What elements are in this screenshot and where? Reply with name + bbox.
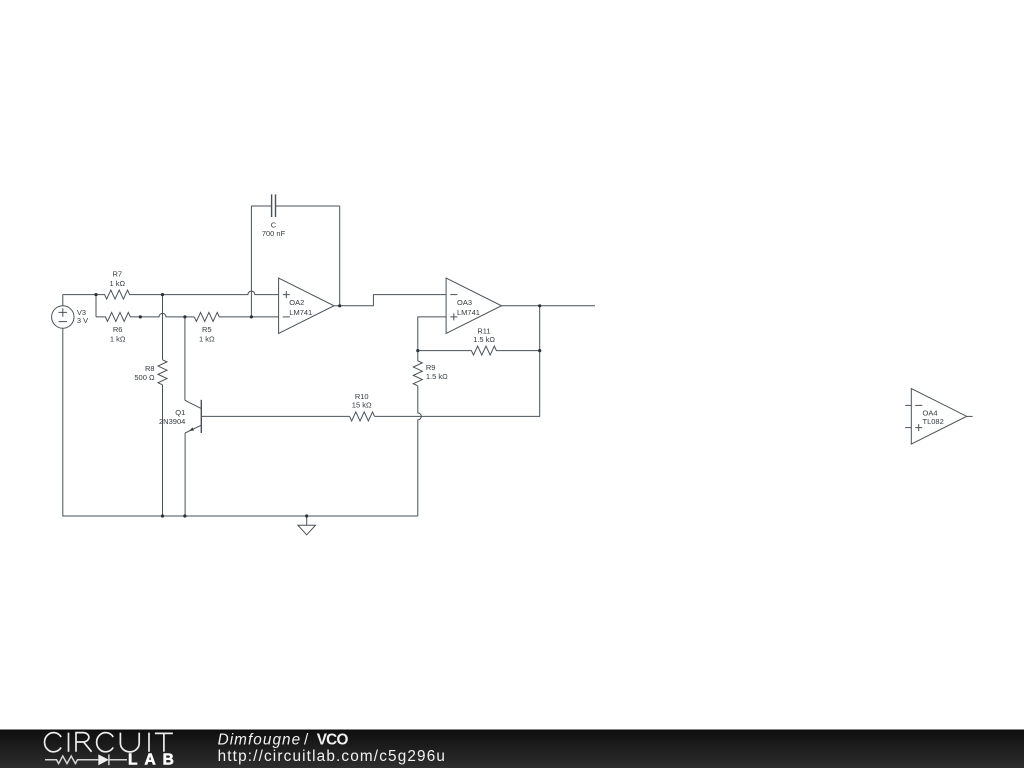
ground (298, 516, 316, 535)
svg-text:R9: R9 (426, 363, 436, 372)
op-amp OA2 (279, 278, 334, 334)
svg-text:http://circuitlab.com/c5g296u: http://circuitlab.com/c5g296u (218, 748, 445, 765)
CircuitLab logo resistor-diode (45, 754, 127, 765)
wire R9 bottom with hop over base wire down to ground rail (418, 386, 422, 516)
resistor R6 (96, 312, 140, 343)
svg-text:15 kΩ: 15 kΩ (352, 400, 372, 409)
svg-text:LM741: LM741 (457, 308, 480, 317)
resistor R8 (134, 360, 167, 385)
wire R7 right to OA2 plus input with hop (163, 291, 279, 295)
svg-text:3 V: 3 V (77, 316, 88, 325)
transistor Q1 (159, 400, 201, 433)
wire node A drop to R6 (95, 295, 97, 317)
resistor R5 (194, 312, 278, 343)
wire collector node down (184, 317, 186, 400)
svg-text:700 nF: 700 nF (262, 229, 286, 238)
node R11 right (538, 349, 541, 352)
node R8 bottom (161, 514, 164, 517)
wire OA3 noninverting input to feedback node (418, 317, 446, 351)
svg-text:R5: R5 (202, 325, 212, 334)
svg-text:OA4: OA4 (923, 408, 938, 417)
wire R6 to R5 with hop over vertical (140, 313, 194, 316)
svg-text:R7: R7 (113, 270, 123, 279)
wire vertical from node B down to R8 (162, 295, 164, 360)
node emitter bottom (183, 514, 186, 517)
wire emitter down to ground rail (184, 433, 186, 516)
svg-text:R6: R6 (113, 325, 123, 334)
node OA2 output (338, 304, 341, 307)
CircuitLab logo CIRCUIT (45, 733, 173, 752)
node C left / OA2 inverting (250, 315, 253, 318)
svg-text:Dimfougne: Dimfougne (218, 732, 301, 749)
svg-text:1 kΩ: 1 kΩ (109, 279, 125, 288)
svg-text:VCO: VCO (317, 732, 349, 749)
wire OA3 output (502, 305, 596, 307)
node R6 right (139, 315, 142, 318)
svg-text:1.5 kΩ: 1.5 kΩ (426, 372, 448, 381)
wire R10 left to Q1 base (201, 415, 349, 417)
svg-text:R8: R8 (145, 364, 155, 373)
resistor R10 (350, 392, 375, 421)
op-amp OA3 (446, 278, 501, 334)
node V3/R7/R6 (94, 293, 97, 296)
node R7/OA2+ (161, 293, 164, 296)
svg-text:1 kΩ: 1 kΩ (110, 334, 126, 343)
resistor R7 (96, 270, 163, 300)
svg-text:OA3: OA3 (457, 298, 472, 307)
wire ground rail (63, 328, 418, 516)
node collector (183, 315, 186, 318)
wire capacitor right down to OA2 output (339, 206, 341, 306)
footer bar (0, 730, 1024, 768)
capacitor C (251, 194, 339, 237)
wire OA2 output stub (334, 305, 340, 307)
resistor R9 (413, 351, 448, 386)
svg-text:1.5 kΩ: 1.5 kΩ (473, 335, 495, 344)
svg-text:LAB: LAB (128, 752, 181, 768)
svg-text:500 Ω: 500 Ω (134, 373, 155, 382)
node ground (305, 514, 308, 517)
svg-text:TL082: TL082 (923, 417, 944, 426)
wire OA2 output to OA3 inverting input (340, 295, 446, 306)
wire V3 top to node A (63, 294, 96, 296)
svg-text:1 kΩ: 1 kΩ (199, 334, 215, 343)
svg-text:Q1: Q1 (175, 408, 185, 417)
node R11 left / R9 top (416, 349, 419, 352)
voltage source V3 (52, 306, 89, 328)
wire OA3 output feedback down and left (375, 306, 540, 417)
op-amp OA4 (905, 389, 972, 445)
resistor R11 (418, 327, 540, 356)
svg-text:OA2: OA2 (289, 298, 304, 307)
wire capacitor left down to inverting input (250, 206, 252, 317)
wire R8 bottom to ground rail (162, 385, 164, 516)
svg-text:2N3904: 2N3904 (159, 417, 185, 426)
wire V3 top lead (62, 295, 64, 306)
svg-text:LM741: LM741 (289, 308, 312, 317)
node OA3 output (538, 304, 541, 307)
